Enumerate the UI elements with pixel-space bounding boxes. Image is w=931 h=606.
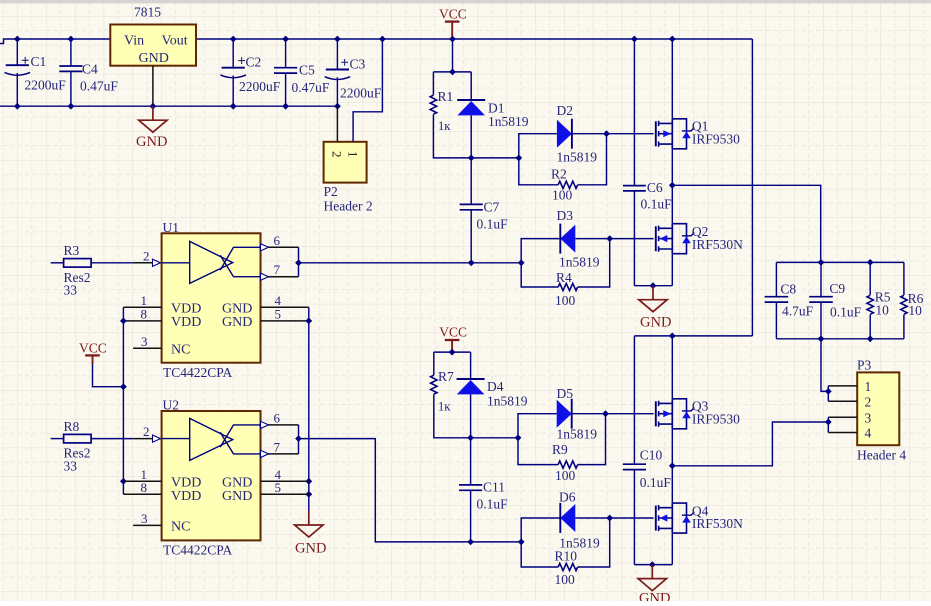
wire U1 out join	[298, 247, 300, 276]
wire gate Q3	[606, 413, 654, 415]
svg-text:C1: C1	[31, 54, 47, 69]
svg-text:7815: 7815	[134, 5, 161, 20]
svg-text:1n5819: 1n5819	[559, 254, 600, 269]
wire VCC to node A1	[452, 39, 454, 72]
svg-text:R3: R3	[64, 243, 80, 258]
svg-text:GND: GND	[139, 51, 169, 66]
svg-text:1n5819: 1n5819	[487, 394, 528, 409]
node gate Q4	[606, 515, 613, 522]
pin U1-6	[261, 246, 299, 248]
pin P3-4	[828, 432, 857, 434]
svg-text:8: 8	[141, 307, 148, 322]
svg-text:VDD: VDD	[171, 489, 201, 504]
svg-text:2: 2	[329, 151, 344, 158]
svg-text:7: 7	[274, 262, 281, 277]
svg-text:GND: GND	[640, 315, 671, 331]
capacitor C1	[16, 39, 18, 65]
pin U2-4	[261, 480, 309, 482]
svg-text:Header 4: Header 4	[857, 448, 906, 463]
svg-text:GND: GND	[136, 134, 167, 150]
wire top rail B	[634, 335, 752, 337]
svg-text:GND: GND	[295, 541, 326, 557]
wire P3 pin3-4 join	[827, 417, 829, 432]
transistor Q4	[655, 506, 657, 531]
node B2	[467, 434, 474, 441]
wire P3 pin1-2 join	[827, 386, 829, 401]
svg-text:100: 100	[555, 468, 576, 483]
op-amp U1	[162, 233, 261, 362]
wire P2-1 to top bus	[353, 39, 382, 142]
svg-text:VDD: VDD	[171, 315, 201, 330]
pin U1-3	[133, 347, 162, 349]
svg-text:0.1uF: 0.1uF	[640, 475, 672, 490]
svg-text:TC4422CPA: TC4422CPA	[163, 365, 233, 380]
svg-text:C10: C10	[640, 448, 663, 463]
capacitor C6	[633, 39, 635, 186]
svg-text:IRF9530: IRF9530	[692, 131, 740, 146]
wire AC input top	[0, 39, 110, 44]
svg-text:0.47uF: 0.47uF	[80, 78, 118, 93]
pin U1-4	[261, 306, 309, 308]
svg-text:U1: U1	[163, 220, 180, 235]
svg-text:4.7uF: 4.7uF	[782, 303, 814, 318]
wire source Q3 to mid node B	[671, 429, 673, 466]
svg-text:NC: NC	[171, 343, 190, 358]
wire bottom return bus	[0, 105, 337, 107]
svg-text:C11: C11	[483, 480, 505, 495]
buffer symbol U2	[162, 418, 261, 460]
svg-text:1к: 1к	[438, 119, 451, 133]
wire gate Q2	[610, 238, 654, 240]
svg-text:R4: R4	[556, 270, 572, 285]
diode D6	[521, 518, 560, 542]
svg-text:D6: D6	[559, 490, 576, 505]
svg-text:GND: GND	[222, 489, 252, 504]
diode D2	[519, 134, 557, 158]
capacitor C2	[232, 39, 234, 68]
svg-text:C2: C2	[246, 54, 262, 69]
wire bottom bus right block	[776, 338, 904, 340]
transistor Q1	[655, 121, 657, 146]
resistor R2	[519, 158, 558, 185]
svg-text:NC: NC	[171, 520, 190, 535]
svg-text:0.1uF: 0.1uF	[641, 197, 673, 212]
svg-text:100: 100	[555, 572, 576, 587]
svg-text:2: 2	[143, 248, 150, 263]
wire drain Q4	[671, 466, 673, 503]
svg-text:Vin: Vin	[124, 33, 144, 48]
svg-text:C9: C9	[829, 281, 845, 296]
pin 7815 GND	[152, 66, 154, 107]
node mid B	[669, 462, 676, 469]
node C11 bottom	[467, 539, 474, 546]
ground under 7815	[152, 106, 154, 120]
wire drain Q3	[671, 336, 673, 399]
svg-text:GND: GND	[639, 591, 670, 602]
svg-text:3: 3	[141, 334, 148, 349]
svg-text:3: 3	[865, 410, 872, 425]
wire top bus right block	[776, 261, 904, 263]
ground U-block	[308, 511, 310, 525]
power VCC left	[85, 354, 100, 356]
pin P3-3	[828, 416, 857, 418]
wire gate Q4	[610, 517, 654, 519]
svg-text:2: 2	[865, 394, 872, 409]
resistor R3	[51, 262, 64, 264]
capacitor C9	[820, 262, 822, 296]
svg-text:0.1uF: 0.1uF	[830, 304, 862, 319]
diode D4	[470, 352, 472, 379]
resistor R7	[433, 352, 435, 375]
wire mid B to P3	[672, 422, 828, 466]
wire drain Q1 to top bus	[671, 39, 673, 119]
capacitor C7	[470, 158, 472, 205]
pin U2-6	[261, 424, 299, 426]
svg-text:1n5819: 1n5819	[488, 114, 529, 129]
svg-text:R8: R8	[64, 419, 80, 434]
header P3	[857, 372, 899, 445]
node gate Q3	[602, 410, 609, 417]
svg-text:VCC: VCC	[439, 324, 467, 339]
pin U2-5	[261, 493, 309, 495]
pin U1-7	[261, 276, 299, 278]
svg-text:0.1uF: 0.1uF	[477, 216, 509, 231]
wire C9 bus to P3 pins 1-2	[821, 339, 828, 392]
resistor R10	[521, 542, 558, 567]
pin P2-2	[336, 106, 338, 142]
resistor R5	[869, 262, 871, 295]
svg-text:33: 33	[64, 283, 78, 298]
svg-text:8: 8	[141, 480, 148, 495]
svg-text:IRF530N: IRF530N	[692, 516, 743, 531]
diode D1	[470, 72, 472, 100]
svg-text:R2: R2	[551, 166, 567, 181]
svg-text:IRF9530: IRF9530	[692, 412, 740, 427]
svg-text:5: 5	[275, 307, 282, 322]
pin P3-2	[828, 400, 857, 402]
capacitor C4	[70, 39, 72, 66]
svg-text:2: 2	[143, 424, 150, 439]
svg-text:TC4422CPA: TC4422CPA	[163, 543, 233, 558]
resistor R1	[432, 72, 434, 95]
wire node B2 to loop D5	[471, 437, 518, 439]
svg-text:6: 6	[274, 410, 281, 425]
wire GND rail	[308, 307, 310, 525]
svg-text:Header 2: Header 2	[324, 199, 373, 214]
resistor R6	[903, 262, 905, 295]
svg-text:C5: C5	[299, 62, 315, 77]
pin P3-1	[828, 385, 857, 387]
op-amp U2	[162, 411, 261, 540]
svg-text:VCC: VCC	[79, 341, 107, 356]
svg-text:C4: C4	[82, 61, 98, 76]
node C7 bottom	[468, 259, 475, 266]
node loop D3	[518, 259, 525, 266]
svg-text:R7: R7	[438, 369, 454, 384]
svg-text:P3: P3	[857, 358, 872, 373]
node A1	[449, 69, 456, 76]
svg-text:IRF530N: IRF530N	[692, 237, 743, 252]
transistor Q3	[655, 401, 657, 426]
header P2	[324, 142, 367, 183]
wire U2 out join	[298, 425, 300, 454]
wire source Q4	[671, 533, 673, 565]
pin U1-2	[133, 262, 162, 264]
wire VCC rail right corner	[751, 39, 753, 336]
node B1	[449, 349, 456, 356]
capacitor C3	[336, 39, 338, 70]
svg-text:2200uF: 2200uF	[239, 79, 281, 94]
wire gnd row A	[634, 285, 672, 287]
svg-text:C8: C8	[780, 281, 796, 296]
pin U2-2	[133, 438, 162, 440]
svg-text:7: 7	[274, 439, 281, 454]
svg-text:U2: U2	[163, 398, 180, 413]
resistor R8	[51, 438, 64, 440]
svg-text:Vout: Vout	[162, 33, 188, 48]
svg-text:100: 100	[555, 293, 576, 308]
wire gate Q1	[607, 133, 654, 135]
svg-text:100: 100	[552, 188, 573, 203]
diode D5	[518, 414, 557, 438]
svg-text:1n5819: 1n5819	[557, 427, 598, 442]
svg-text:D2: D2	[557, 103, 574, 118]
svg-text:C7: C7	[484, 199, 500, 214]
pin U1-8	[123, 320, 161, 322]
node mid A	[669, 182, 676, 189]
svg-text:C6: C6	[647, 180, 663, 195]
wire top bus regulator to VCC rail	[196, 38, 752, 40]
node gate Q1	[603, 130, 610, 137]
wire node A2 to loop D2	[471, 157, 519, 159]
svg-text:R1: R1	[438, 89, 454, 104]
svg-text:1n5819: 1n5819	[557, 150, 598, 165]
pin U1-5	[261, 320, 309, 322]
ground channel B	[651, 565, 653, 579]
node A2	[468, 155, 475, 162]
svg-text:VCC: VCC	[439, 6, 467, 21]
svg-text:P2: P2	[324, 184, 338, 199]
power VCC top	[445, 20, 460, 22]
node loop D6	[518, 539, 525, 546]
pin U2-1	[123, 480, 161, 482]
svg-text:1: 1	[865, 379, 872, 394]
svg-text:0.47uF: 0.47uF	[292, 80, 330, 95]
wire gnd row B	[634, 564, 672, 566]
capacitor C10	[633, 336, 635, 464]
wire VCC left to rail	[93, 364, 124, 387]
svg-text:C3: C3	[350, 56, 366, 71]
node gate Q2	[606, 235, 613, 242]
wire drain Q2 from mid node	[671, 185, 673, 223]
svg-text:R9: R9	[552, 442, 568, 457]
svg-text:2200uF: 2200uF	[25, 77, 67, 92]
buffer symbol U1	[162, 241, 261, 283]
svg-text:D3: D3	[557, 208, 574, 223]
wire U2 output	[299, 439, 522, 542]
power VCC mid	[445, 339, 460, 341]
wire source Q2 to gnd row	[671, 254, 673, 286]
node gnd B	[649, 561, 656, 568]
regulator 7815	[110, 25, 196, 66]
wire VDD rail	[122, 307, 124, 494]
svg-text:4: 4	[865, 426, 872, 441]
svg-text:10: 10	[875, 302, 889, 317]
svg-text:10: 10	[908, 303, 922, 318]
pin U2-7	[261, 453, 299, 455]
transistor Q2	[655, 226, 657, 251]
capacitor C5	[285, 39, 287, 68]
svg-text:6: 6	[274, 233, 281, 248]
wire source Q1 to mid node A	[671, 149, 673, 186]
ground channel A	[652, 286, 654, 300]
svg-text:D5: D5	[557, 386, 574, 401]
resistor R9	[518, 438, 558, 465]
pin U1-1	[123, 306, 161, 308]
resistor R4	[521, 263, 558, 287]
svg-text:3: 3	[141, 511, 148, 526]
svg-text:1: 1	[345, 151, 360, 158]
capacitor C8	[775, 262, 777, 296]
pin U2-8	[123, 493, 161, 495]
svg-text:5: 5	[275, 480, 282, 495]
node gnd A	[650, 282, 657, 289]
svg-text:GND: GND	[222, 315, 252, 330]
svg-text:1к: 1к	[438, 399, 451, 413]
svg-text:2200uF: 2200uF	[340, 86, 382, 101]
pin U2-3	[133, 524, 162, 526]
diode D3	[521, 239, 560, 263]
wire U1 output	[299, 262, 522, 264]
svg-text:33: 33	[64, 458, 78, 473]
svg-text:0.1uF: 0.1uF	[477, 497, 509, 512]
svg-text:D4: D4	[487, 379, 504, 394]
svg-text:R10: R10	[555, 549, 578, 564]
capacitor C11	[470, 438, 472, 485]
wire mid A to right block	[672, 185, 820, 262]
